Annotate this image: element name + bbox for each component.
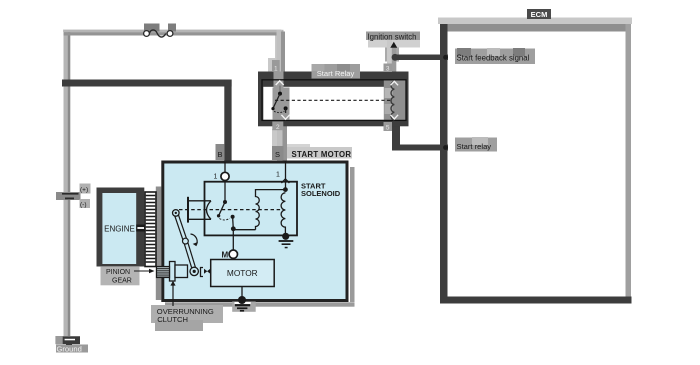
svg-text:1: 1 [276,171,280,178]
svg-text:Ignition switch: Ignition switch [368,32,417,41]
svg-text:GEAR: GEAR [112,277,132,284]
svg-text:Start relay: Start relay [457,142,492,151]
svg-text:B: B [217,150,222,159]
svg-text:1: 1 [274,65,278,72]
svg-text:START MOTOR: START MOTOR [292,150,352,159]
svg-text:ECM: ECM [531,10,548,19]
svg-text:ENGINE: ENGINE [104,224,135,233]
svg-text:PINION: PINION [106,269,130,276]
svg-text:S: S [275,150,280,159]
svg-text:Start Relay: Start Relay [317,69,355,78]
svg-text:Ground: Ground [57,344,82,353]
svg-text:(-): (-) [80,202,87,209]
svg-text:(+): (+) [80,187,88,194]
svg-text:M: M [222,250,229,259]
svg-text:5: 5 [386,125,390,132]
svg-text:3: 3 [386,66,390,73]
svg-text:1: 1 [214,174,218,181]
svg-text:2: 2 [276,124,280,131]
svg-text:CLUTCH: CLUTCH [157,315,188,324]
svg-text:MOTOR: MOTOR [227,268,258,278]
svg-text:SOLENOID: SOLENOID [301,189,341,198]
svg-text:Start feedback signal: Start feedback signal [457,53,530,62]
